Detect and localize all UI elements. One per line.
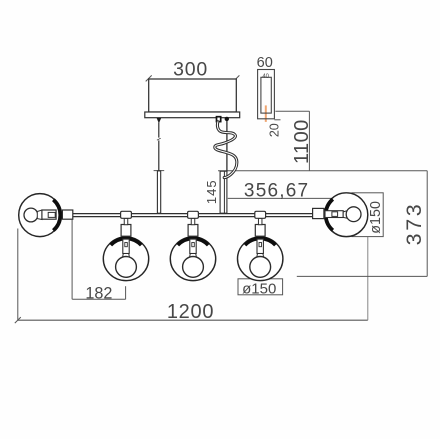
right socket inner tube: [325, 211, 343, 218]
right socket contact: [332, 212, 338, 217]
pendant globe 3 socket tube: [255, 225, 265, 237]
pendant globe 2 glass: [170, 237, 215, 281]
pendant globe 2 bulb neck: [190, 254, 197, 258]
pendant globe 2 inner socket: [190, 239, 196, 253]
right bulb: [346, 207, 361, 222]
pendant globe 2 socket contact: [192, 243, 195, 247]
orange highlight dash: [265, 105, 267, 122]
svg-text:ø150: ø150: [242, 280, 276, 297]
tick marks 1200: [15, 317, 21, 323]
dimension 20 extension line: [274, 119, 280, 121]
pendant globe 3 socket contact: [259, 243, 262, 247]
pendant globe 3 bulb neck: [257, 254, 264, 258]
pendant globe 3 inner socket: [257, 239, 263, 253]
svg-text:300: 300: [173, 58, 208, 80]
left suspension rod: [157, 171, 160, 213]
left bulb neck: [37, 210, 42, 220]
left bar connector: [62, 210, 72, 219]
right bulb neck: [343, 211, 348, 219]
left bulb: [24, 208, 38, 222]
mounting bracket outer box (60): [258, 70, 275, 119]
svg-text:60: 60: [257, 55, 273, 71]
left socket contact: [48, 212, 55, 217]
horizontal bar (bottom line): [73, 216, 314, 218]
cable gland (dot): [225, 117, 229, 121]
label box ø150 (end globe diameter): [352, 193, 383, 237]
cable gland (square): [217, 117, 221, 122]
horizontal bar (top line): [73, 213, 314, 215]
pendant globe 1 bulb neck: [123, 254, 130, 258]
label box ø150 (pendant globe diameter): [238, 279, 283, 295]
svg-text:356,67: 356,67: [244, 181, 309, 202]
pendant globe 1 bulb: [116, 257, 137, 278]
right globe rim (thick arc): [326, 199, 333, 230]
pendant globe 2 socket tube: [188, 225, 198, 237]
pendant globe 2 rim (thick arc): [178, 238, 209, 245]
right socket outer: [313, 208, 324, 218]
pendant globe 1 inner socket: [123, 239, 129, 253]
coiled power cord: [215, 122, 237, 178]
pendant globe 2 bar connector: [188, 211, 199, 218]
left globe rim (thick arc): [53, 200, 60, 231]
svg-text:1200: 1200: [167, 301, 214, 323]
svg-text:373: 373: [402, 202, 426, 246]
canopy base plate: [145, 112, 240, 118]
dimension 373: vertical line with top/bottom extensions: [218, 170, 427, 172]
pendant globe 1 socket contact: [125, 243, 128, 247]
mounting bracket inner plate (40): [261, 77, 271, 113]
dimension 1100: vertical line and top hook: [275, 110, 309, 112]
svg-text:182: 182: [85, 285, 112, 303]
pendant globe 1 bar connector: [121, 211, 132, 218]
pendant globe 1 socket tube: [121, 225, 131, 237]
svg-text:145: 145: [204, 179, 219, 204]
right suspension rod: [220, 171, 227, 213]
canopy box: [149, 79, 237, 112]
left socket: [42, 210, 56, 219]
pendant globe 1 rim (thick arc): [111, 238, 142, 245]
left suspension fitting (cone): [157, 118, 162, 123]
pendant globe 1 hanger rod: [124, 218, 128, 224]
pendant globe 3 bulb: [250, 257, 271, 278]
pendant globe 3 rim (thick arc): [245, 238, 276, 245]
pendant globe 2 hanger rod: [191, 218, 195, 224]
pendant globe 2 bulb: [183, 257, 204, 278]
left suspension wire (with break): [158, 123, 160, 138]
pendant globe 3 glass: [238, 237, 283, 281]
pendant globe 1 glass: [103, 237, 148, 281]
dimension 1200: line and extension lines: [18, 319, 368, 321]
left end globe glass: [19, 194, 61, 237]
dimension line 300 (canopy width): [146, 75, 152, 81]
svg-text:20: 20: [267, 123, 281, 137]
svg-text:1100: 1100: [291, 119, 313, 164]
tick at left rod top (145 level): [154, 170, 165, 172]
right straight wire: [226, 121, 228, 173]
pendant globe 3 hanger rod: [258, 218, 262, 224]
dimension line 356,67: [228, 197, 332, 199]
pendant globe 3 bar connector: [255, 211, 266, 218]
right end globe glass: [325, 193, 368, 237]
dimension 182: line and extension lines: [72, 298, 125, 300]
svg-text:ø150: ø150: [368, 201, 384, 234]
